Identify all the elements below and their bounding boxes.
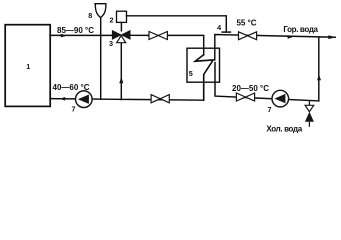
svg-text:7: 7 — [268, 105, 272, 114]
gate valve 55C (outline bowtie) — [239, 32, 257, 40]
svg-text:3: 3 — [109, 39, 113, 48]
gate valve return (outline bowtie) — [151, 95, 169, 103]
flow arrow drop leg up — [119, 76, 123, 83]
wire 3-way valve drop leg — [120, 43, 122, 100]
svg-text:8: 8 — [88, 11, 92, 20]
svg-text:85—90 °C: 85—90 °C — [57, 26, 94, 35]
svg-text:55 °C: 55 °C — [236, 19, 256, 28]
actuator box 2 — [117, 11, 127, 22]
check valve (cold water inlet) — [305, 101, 314, 127]
svg-text:Гор. вода: Гор. вода — [283, 25, 318, 34]
flow arrow riser up — [317, 74, 321, 80]
wire supply pipe right (gate valve to HX inlet) — [167, 35, 204, 54]
sensor 4 plate — [222, 31, 230, 33]
flow arrow supply right — [61, 34, 68, 38]
gate valve 20-50C (outline bowtie) — [236, 93, 254, 101]
pump 7 left — [76, 91, 93, 108]
svg-text:1: 1 — [26, 62, 30, 71]
wire supply pipe mid (3-way valve to gate valve) — [131, 34, 150, 36]
gate valve supply (outline bowtie) — [149, 32, 167, 40]
boiler box 1 — [5, 25, 50, 107]
svg-text:20—50 °C: 20—50 °C — [232, 84, 269, 93]
heat exchanger coil zigzag — [195, 55, 213, 100]
svg-text:5: 5 — [189, 69, 193, 78]
3-way valve V3 (filled bowtie + outline bottom port) — [112, 30, 130, 42]
svg-text:Хол. вода: Хол. вода — [266, 125, 302, 134]
svg-text:7: 7 — [72, 104, 76, 113]
wire control impulse line to sensor 4 — [127, 16, 227, 32]
heat exchanger U5 box — [187, 48, 220, 82]
svg-text:4: 4 — [217, 23, 221, 32]
flow arrow return left — [59, 97, 65, 101]
svg-text:2: 2 — [110, 16, 114, 25]
flow arrow hot out right — [288, 35, 294, 39]
wire return pipe bottom-left (HX to boiler) — [50, 99, 204, 101]
wire bulb stem / bypass vertical — [100, 17, 102, 99]
svg-text:40—60 °C: 40—60 °C — [53, 83, 90, 92]
sensor bulb 8 — [95, 4, 106, 18]
pump 7 right — [272, 90, 289, 107]
wire secondary hot pipe top-right — [215, 35, 335, 60]
wire secondary cold pipe bottom-right — [215, 63, 319, 101]
wire supply pipe left (box to 3-way valve) — [50, 34, 113, 36]
flow arrow hot end right — [328, 35, 336, 39]
wire actuator stem — [120, 22, 122, 30]
wire cold water riser — [318, 37, 320, 101]
